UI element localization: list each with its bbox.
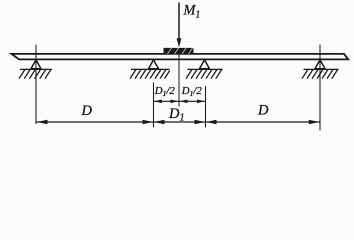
hatching right outer: [302, 69, 338, 78]
main dim arrowhead at right end: [309, 120, 320, 124]
main dim arrowhead right of tick1: [154, 120, 165, 124]
hatching left inner: [130, 69, 169, 78]
small dim arrowhead left-left: [154, 100, 162, 104]
main dim arrowhead left of tick2: [195, 120, 206, 124]
small dim arrowhead right-left: [180, 100, 188, 104]
svg-text:D1/2: D1/2: [154, 85, 176, 98]
support triangle left inner: [149, 60, 159, 69]
extension line right inner support: [205, 87, 207, 128]
svg-text:M1: M1: [183, 2, 201, 20]
support triangle right inner: [200, 60, 210, 69]
svg-text:D: D: [257, 103, 269, 119]
hatching left outer: [19, 69, 51, 78]
ground line left inner: [132, 68, 170, 70]
beam (parallelogram body): [12, 54, 349, 60]
load arrowhead: [177, 38, 182, 47]
ground line right inner: [188, 68, 222, 70]
small dim arrowhead right-right: [197, 100, 205, 104]
svg-text:D1: D1: [168, 106, 184, 124]
ground line left outer: [21, 68, 52, 70]
loading block on beam: [164, 48, 194, 54]
extension line left outer support: [35, 45, 37, 124]
load arrow M1 shaft: [178, 3, 180, 40]
support triangle left outer: [31, 60, 41, 69]
hatching right inner: [186, 69, 222, 78]
svg-text:D: D: [81, 103, 93, 119]
main dim arrowhead left of tick1: [143, 120, 154, 124]
main dim arrowhead right of tick2: [206, 120, 217, 124]
white hatch texture in loading block: [168, 48, 193, 54]
main dimension line: [36, 121, 320, 123]
small dim arrowhead left-right: [171, 100, 179, 104]
ground line right outer: [304, 68, 338, 70]
extension line left inner support: [153, 83, 155, 127]
small dimension line D1/2 left: [154, 100, 180, 102]
svg-text:D1/2: D1/2: [181, 85, 203, 98]
main dim arrowhead at left end: [37, 120, 48, 124]
support triangle right outer: [315, 60, 325, 69]
extension line centre load point: [178, 54, 180, 106]
extension line right outer support: [319, 45, 321, 130]
small dimension line D1/2 right: [179, 100, 206, 102]
